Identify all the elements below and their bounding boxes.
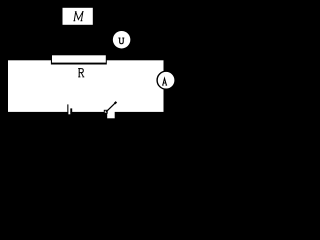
- motor M1 label M: [73, 12, 83, 21]
- node paper: circuit loop panel: [8, 60, 164, 112]
- ammeter A1 label A: [162, 78, 167, 85]
- resistor R1 outline: [51, 55, 107, 64]
- battery BT1 white gap stub: [68, 111, 70, 114]
- resistor R1 body fill: [52, 55, 106, 62]
- ammeter A1 body: [157, 71, 175, 89]
- switch S1 pivot: [104, 110, 107, 113]
- motor M1 box: [63, 8, 93, 25]
- voltmeter U1 label U: [118, 38, 124, 44]
- battery BT1 short plate: [70, 108, 72, 112]
- switch S1 lever: [106, 102, 116, 112]
- switch S1 lever tip: [115, 102, 117, 104]
- switch S1 contact tab: [107, 112, 115, 119]
- resistor R1 value label R: [78, 69, 84, 77]
- battery BT1 long plate: [67, 104, 68, 112]
- voltmeter U1 body: [113, 31, 131, 49]
